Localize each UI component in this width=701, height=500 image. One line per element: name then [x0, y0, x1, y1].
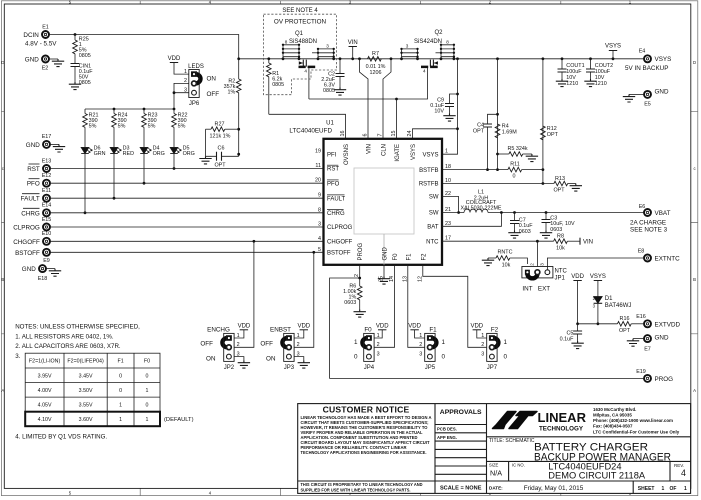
- svg-text:0805: 0805: [323, 88, 335, 94]
- svg-text:2: 2: [530, 263, 535, 266]
- svg-text:VSYS: VSYS: [411, 144, 417, 160]
- svg-text:LTC4040EUFD: LTC4040EUFD: [289, 128, 332, 135]
- svg-text:1: 1: [119, 417, 122, 423]
- wire LED anode bus: [85, 108, 174, 110]
- jumper JP2 ENCHG: [200, 323, 250, 371]
- svg-text:19: 19: [315, 149, 321, 155]
- svg-text:1210: 1210: [595, 81, 607, 87]
- svg-text:ORG: ORG: [153, 151, 165, 157]
- svg-text:VSYS: VSYS: [655, 56, 672, 63]
- svg-text:INT: INT: [522, 286, 532, 293]
- turret E10 CHGOFF: [13, 231, 323, 246]
- svg-text:ON: ON: [207, 76, 217, 83]
- svg-text:Fax: (408)434-0507: Fax: (408)434-0507: [593, 424, 633, 429]
- transistor Q2 SiS424DN: [400, 30, 455, 74]
- svg-text:D: D: [693, 60, 696, 65]
- svg-text:18: 18: [445, 164, 451, 170]
- wire VSYS riser: [442, 59, 459, 154]
- svg-text:3: 3: [419, 352, 422, 358]
- svg-text:LTC Confidential-For Customer: LTC Confidential-For Customer Use Only: [593, 429, 680, 434]
- svg-text:FAULT: FAULT: [21, 196, 40, 203]
- svg-text:3: 3: [481, 352, 484, 358]
- svg-text:0: 0: [119, 373, 122, 379]
- svg-text:TITLE: SCHEMATIC: TITLE: SCHEMATIC: [489, 438, 535, 444]
- wire main 5V rail: [239, 58, 644, 60]
- jumper JP6: [184, 64, 219, 107]
- svg-text:3.45V: 3.45V: [79, 373, 93, 379]
- svg-text:NTC: NTC: [426, 239, 439, 245]
- svg-text:E10: E10: [42, 231, 52, 237]
- svg-text:0: 0: [354, 354, 358, 361]
- svg-text:(DEFAULT): (DEFAULT): [164, 417, 194, 423]
- wire EXTNTC: [547, 258, 643, 270]
- svg-text:2: 2: [297, 342, 300, 348]
- svg-text:PROG: PROG: [358, 242, 364, 260]
- turret E9 BSTOFF: [15, 249, 323, 264]
- svg-text:E5: E5: [644, 102, 651, 108]
- turret E8 EXTNTC: [638, 248, 680, 262]
- svg-text:3: 3: [326, 44, 329, 49]
- turret E1 DCIN: [23, 25, 57, 48]
- svg-text:EXTVDD: EXTVDD: [655, 321, 681, 328]
- svg-text:DEMO CIRCUIT 2118A: DEMO CIRCUIT 2118A: [548, 471, 646, 481]
- turret E6 VBAT: [630, 204, 671, 234]
- svg-text:BAT: BAT: [427, 225, 439, 231]
- svg-text:VSYS: VSYS: [590, 274, 606, 280]
- svg-text:OFF: OFF: [260, 340, 273, 347]
- approvals column: [437, 409, 482, 492]
- svg-text:E9: E9: [43, 258, 50, 264]
- svg-text:SEE NOTE 4: SEE NOTE 4: [282, 8, 318, 14]
- svg-text:R11: R11: [510, 162, 520, 168]
- svg-text:3.: 3.: [15, 353, 20, 360]
- resistor R22: [172, 109, 188, 148]
- wire JP6 pin2/pin3 to LED bus: [174, 83, 189, 109]
- svg-text:1: 1: [297, 333, 300, 339]
- svg-text:GRN: GRN: [94, 151, 106, 157]
- svg-text:LINEAR: LINEAR: [538, 410, 587, 425]
- resistor R6: [343, 278, 366, 317]
- wire F2 net: [423, 265, 487, 348]
- svg-text:SHEET: SHEET: [638, 486, 655, 492]
- resistor R8: [554, 234, 580, 252]
- svg-text:TECHNOLOGY: TECHNOLOGY: [539, 426, 583, 432]
- turret E4 VSYS: [625, 49, 671, 72]
- svg-text:VIN: VIN: [367, 144, 373, 154]
- svg-text:E6: E6: [639, 204, 646, 210]
- wire PROG net: [330, 265, 644, 379]
- turret E15 CLPROG: [13, 217, 323, 232]
- svg-text:VBAT: VBAT: [655, 210, 671, 217]
- svg-text:JP6: JP6: [189, 101, 200, 107]
- turret E5 GND: [623, 89, 669, 108]
- svg-text:SIZE: SIZE: [489, 463, 499, 468]
- diode D1 BAT46WJ: [593, 296, 632, 325]
- resistor R13: [442, 176, 582, 194]
- jumper JP7 F2: [470, 323, 507, 371]
- svg-text:24: 24: [407, 131, 413, 137]
- svg-text:BSTOFF: BSTOFF: [15, 250, 40, 257]
- svg-text:1: 1: [146, 417, 149, 423]
- svg-text:ON: ON: [206, 356, 216, 363]
- svg-text:ENCHG: ENCHG: [207, 327, 230, 334]
- svg-text:JP3: JP3: [284, 365, 295, 371]
- svg-text:0: 0: [442, 354, 446, 361]
- svg-text:OF: OF: [670, 486, 677, 492]
- svg-text:3.95V: 3.95V: [38, 373, 52, 379]
- svg-text:DCIN: DCIN: [23, 32, 39, 39]
- svg-text:0805: 0805: [79, 80, 91, 86]
- svg-text:1206: 1206: [370, 70, 382, 76]
- svg-text:4.8V - 5.5V: 4.8V - 5.5V: [25, 41, 57, 48]
- svg-text:R16: R16: [620, 316, 630, 322]
- svg-text:E18: E18: [38, 276, 48, 282]
- svg-text:RNTC: RNTC: [498, 250, 513, 256]
- svg-text:4. LIMITED BY Q1 VDS RATING.: 4. LIMITED BY Q1 VDS RATING.: [15, 434, 107, 441]
- svg-text:E2: E2: [42, 66, 49, 72]
- svg-text:C5: C5: [566, 331, 573, 337]
- svg-text:BAT46WJ: BAT46WJ: [605, 303, 632, 309]
- svg-text:E4: E4: [639, 49, 646, 55]
- title block outline: [298, 404, 691, 494]
- svg-text:1%: 1%: [228, 90, 236, 96]
- svg-text:APPROVALS: APPROVALS: [440, 409, 482, 416]
- svg-text:B: B: [693, 277, 696, 282]
- svg-text:7: 7: [378, 134, 384, 137]
- svg-text:VDD: VDD: [238, 323, 251, 329]
- turret E12 PFO: [27, 173, 324, 188]
- svg-text:R27: R27: [215, 122, 225, 128]
- svg-text:1: 1: [442, 339, 446, 346]
- svg-text:OPT: OPT: [214, 163, 226, 169]
- OV protection dashed box: [264, 8, 337, 95]
- svg-text:4: 4: [681, 468, 686, 478]
- svg-text:Q1: Q1: [295, 31, 304, 37]
- svg-text:1: 1: [184, 69, 187, 75]
- svg-text:10: 10: [445, 178, 451, 184]
- svg-text:FAULT: FAULT: [327, 196, 346, 202]
- resistor R25: [73, 35, 91, 64]
- svg-text:Phone: (408)432-1900 www.lin: Phone: (408)432-1900 www.linear.com: [593, 418, 673, 423]
- svg-text:1: 1: [354, 339, 358, 346]
- svg-text:CHRG: CHRG: [327, 211, 345, 217]
- svg-text:VDD: VDD: [408, 323, 421, 329]
- resistor R27: [206, 122, 239, 157]
- turret E19 PROG: [636, 369, 673, 383]
- svg-text:2: 2: [377, 342, 380, 348]
- svg-text:E13: E13: [42, 158, 52, 164]
- svg-text:F2: F2: [491, 327, 499, 334]
- svg-text:RSTFB: RSTFB: [419, 182, 439, 188]
- capacitor C7: [508, 213, 533, 239]
- svg-text:16: 16: [340, 131, 346, 137]
- svg-text:10k: 10k: [502, 262, 511, 268]
- svg-text:0603: 0603: [550, 227, 562, 233]
- LED D6 GRN: [81, 146, 105, 215]
- LT logo: [493, 407, 680, 434]
- svg-text:VIN: VIN: [348, 40, 358, 46]
- svg-text:2A CHARGE: 2A CHARGE: [630, 220, 666, 227]
- svg-text:CHGOFF: CHGOFF: [327, 240, 353, 246]
- svg-text:OVSNS: OVSNS: [344, 144, 350, 165]
- svg-text:F2=0(LIFEP04): F2=0(LIFEP04): [67, 359, 104, 365]
- customer notice: [301, 405, 432, 493]
- svg-text:0: 0: [504, 354, 508, 361]
- svg-text:OV PROTECTION: OV PROTECTION: [274, 19, 327, 26]
- svg-text:OFF: OFF: [207, 91, 220, 98]
- LED D4 ORG: [140, 146, 165, 185]
- svg-text:APP ENG.: APP ENG.: [437, 435, 457, 440]
- capacitor C6: [206, 146, 239, 169]
- jumper JP3 ENBST: [260, 323, 310, 371]
- jumper JP5 F1: [408, 323, 445, 371]
- svg-text:2. ALL CAPACITORS ARE 0603, X: 2. ALL CAPACITORS ARE 0603, X7R.: [15, 343, 121, 350]
- svg-text:CHGOFF: CHGOFF: [13, 239, 40, 246]
- wire ENBST riser: [294, 251, 315, 347]
- svg-text:121k 1%: 121k 1%: [210, 134, 231, 140]
- svg-text:ON: ON: [266, 356, 276, 363]
- svg-text:SiS488DN: SiS488DN: [289, 39, 317, 45]
- resistor R23: [142, 109, 158, 148]
- svg-text:15: 15: [391, 131, 397, 137]
- svg-text:VIN: VIN: [583, 240, 593, 246]
- resistor R5: [498, 146, 539, 162]
- svg-text:1630 McCarthy Blvd.: 1630 McCarthy Blvd.: [593, 407, 636, 412]
- svg-text:E15: E15: [42, 217, 52, 223]
- svg-text:JP5: JP5: [425, 365, 436, 371]
- svg-text:4.10V: 4.10V: [38, 417, 52, 423]
- node VIN termination: [580, 238, 593, 246]
- svg-text:2: 2: [481, 342, 484, 348]
- turret E2 GND: [25, 56, 64, 72]
- ground GND pin25: [378, 265, 390, 284]
- svg-text:OPT: OPT: [553, 188, 565, 194]
- svg-text:1: 1: [419, 333, 422, 339]
- svg-text:Q2: Q2: [434, 30, 443, 36]
- capacitor C5: [560, 324, 584, 349]
- svg-text:5%: 5%: [178, 124, 186, 130]
- turret E13 RST: [27, 158, 323, 173]
- svg-text:0603: 0603: [344, 300, 356, 306]
- svg-text:3: 3: [377, 352, 380, 358]
- svg-text:5%: 5%: [148, 124, 156, 130]
- svg-text:IC NO.: IC NO.: [512, 463, 525, 468]
- transistor Q1 SiS488DN: [282, 31, 335, 74]
- svg-text:PROG: PROG: [655, 376, 674, 383]
- svg-text:F2=1(LI-ION): F2=1(LI-ION): [29, 359, 61, 365]
- svg-text:10k: 10k: [556, 245, 565, 251]
- node VDD JP6: [168, 56, 189, 74]
- svg-text:VDD: VDD: [376, 323, 389, 329]
- svg-text:4.00V: 4.00V: [38, 388, 52, 394]
- wire SW pin22 jog: [442, 197, 459, 213]
- svg-text:A: A: [693, 388, 696, 393]
- ground at R27/C6: [199, 156, 211, 164]
- svg-text:CLN: CLN: [382, 144, 388, 156]
- svg-text:Friday, May 01, 2015: Friday, May 01, 2015: [524, 485, 584, 492]
- resistor R16: [617, 316, 643, 334]
- svg-text:E14: E14: [42, 203, 52, 209]
- wire NTC pin17: [442, 240, 554, 267]
- svg-text:JP4: JP4: [364, 365, 375, 371]
- turret E16 EXTVDD: [636, 314, 680, 328]
- svg-text:PFO: PFO: [327, 181, 340, 187]
- wire BAT pin23 jog: [442, 213, 501, 227]
- svg-text:GND: GND: [25, 56, 39, 63]
- svg-text:1: 1: [445, 149, 448, 155]
- svg-text:E16: E16: [636, 314, 646, 320]
- svg-text:OPT: OPT: [619, 328, 631, 334]
- svg-text:5%: 5%: [89, 124, 97, 130]
- svg-text:C6: C6: [218, 146, 225, 152]
- svg-text:R8: R8: [557, 234, 564, 240]
- svg-text:VDD: VDD: [168, 56, 181, 62]
- svg-text:BSTOFF: BSTOFF: [327, 251, 351, 257]
- LED D3 RED: [110, 146, 134, 200]
- svg-text:GND: GND: [655, 335, 669, 342]
- wire R7 kelvin sense to VIN/CLN pins: [360, 59, 392, 139]
- svg-text:1: 1: [119, 403, 122, 409]
- svg-text:ENBST: ENBST: [270, 327, 291, 334]
- svg-text:OPT: OPT: [473, 128, 485, 134]
- note3 table: [25, 353, 193, 426]
- svg-text:PFI: PFI: [327, 152, 337, 158]
- resistor R12: [541, 126, 559, 140]
- svg-text:GND: GND: [26, 142, 40, 149]
- svg-text:SUPPLIED FOR USE WITH LINEAR T: SUPPLIED FOR USE WITH LINEAR TECHNOLOGY …: [301, 487, 411, 492]
- svg-text:5%: 5%: [118, 124, 126, 130]
- svg-text:VDD: VDD: [470, 323, 483, 329]
- jumper JP4 F0: [354, 323, 389, 371]
- resistor R4: [495, 123, 517, 138]
- capacitor COUT2: [584, 59, 613, 87]
- node VIN stub: [348, 40, 358, 59]
- jumper JP1 NTC: [522, 263, 568, 293]
- svg-text:SiS424DN: SiS424DN: [414, 39, 442, 45]
- svg-text:3.50V: 3.50V: [79, 388, 93, 394]
- svg-text:8: 8: [446, 40, 449, 45]
- svg-text:1. ALL RESISTORS ARE 0402, 1%: 1. ALL RESISTORS ARE 0402, 1%.: [15, 334, 114, 341]
- wire VBAT rail: [488, 211, 643, 214]
- svg-text:DATE:: DATE:: [489, 486, 503, 491]
- svg-text:3: 3: [540, 263, 545, 266]
- svg-text:NOTES: UNLESS OTHERWISE SPECIF: NOTES: UNLESS OTHERWISE SPECIFIED,: [15, 324, 140, 331]
- svg-text:R5 324k: R5 324k: [508, 146, 528, 152]
- svg-text:JP1: JP1: [555, 276, 566, 282]
- svg-text:GND: GND: [655, 89, 669, 96]
- svg-text:F0: F0: [393, 253, 399, 261]
- svg-text:NTC: NTC: [555, 269, 568, 275]
- svg-text:0: 0: [146, 403, 149, 409]
- svg-text:E11: E11: [42, 188, 51, 194]
- svg-text:0603: 0603: [519, 229, 531, 235]
- svg-text:GND: GND: [383, 247, 389, 261]
- svg-text:SCALE = NONE: SCALE = NONE: [440, 486, 482, 492]
- svg-text:EXT: EXT: [538, 286, 550, 293]
- node VSYS stub: [605, 44, 621, 59]
- capacitor CIN1: [69, 64, 93, 90]
- svg-text:4.05V: 4.05V: [38, 403, 52, 409]
- svg-text:VDD: VDD: [297, 323, 310, 329]
- svg-text:3: 3: [406, 44, 409, 49]
- svg-text:E12: E12: [42, 173, 52, 179]
- resistor RNTC: [482, 250, 528, 269]
- svg-text:1.69M: 1.69M: [502, 129, 517, 135]
- turret E11 FAULT: [21, 188, 324, 203]
- svg-text:6: 6: [363, 134, 369, 137]
- svg-text:D1: D1: [605, 296, 613, 302]
- svg-text:0805: 0805: [272, 82, 284, 88]
- svg-text:8: 8: [285, 40, 288, 45]
- svg-text:3.60V: 3.60V: [79, 417, 93, 423]
- svg-text:4: 4: [423, 69, 426, 74]
- svg-text:N/A: N/A: [490, 469, 502, 478]
- turret E7 GND: [627, 335, 669, 353]
- wire F1 net: [408, 265, 425, 348]
- inductor L1: [442, 190, 502, 213]
- svg-text:THIS CIRCUIT IS PROPRIETARY TO: THIS CIRCUIT IS PROPRIETARY TO LINEAR TE…: [301, 482, 423, 487]
- svg-text:RST: RST: [327, 167, 339, 173]
- resistor R1: [267, 59, 285, 115]
- svg-text:0.1uF: 0.1uF: [560, 337, 574, 343]
- svg-text:VDD: VDD: [571, 274, 584, 280]
- capacitor C3: [540, 213, 575, 239]
- svg-text:0805: 0805: [79, 53, 91, 59]
- svg-text:XAL5030-222ME: XAL5030-222ME: [460, 205, 501, 211]
- svg-text:CHRG: CHRG: [21, 210, 40, 217]
- svg-text:4: 4: [304, 69, 307, 74]
- NOTES: [15, 324, 140, 441]
- svg-text:BSTFB: BSTFB: [419, 168, 438, 174]
- TITLEBLOCK: [298, 404, 691, 494]
- resistor R11: [442, 162, 543, 180]
- svg-text:2: 2: [237, 342, 240, 348]
- svg-text:0: 0: [119, 388, 122, 394]
- turret E17 GND: [26, 134, 65, 152]
- svg-text:F1: F1: [429, 327, 437, 334]
- wire ENCHG riser: [234, 240, 255, 347]
- turret E14 CHRG: [21, 203, 323, 218]
- svg-text:ORG: ORG: [183, 151, 195, 157]
- turret E18 GND: [22, 265, 61, 282]
- svg-text:F0: F0: [364, 327, 372, 334]
- svg-text:VSYS: VSYS: [605, 44, 621, 50]
- svg-text:JP7: JP7: [487, 365, 498, 371]
- svg-text:F2: F2: [421, 253, 427, 261]
- svg-text:RST: RST: [27, 166, 40, 173]
- svg-text:IGATE: IGATE: [395, 144, 401, 162]
- wire EXTVDD: [578, 323, 618, 325]
- svg-text:CLPROG: CLPROG: [327, 225, 353, 231]
- svg-text:E1: E1: [42, 25, 49, 31]
- svg-text:VSYS: VSYS: [422, 152, 438, 158]
- svg-text:E19: E19: [636, 369, 646, 375]
- svg-text:2: 2: [419, 342, 422, 348]
- svg-text:OFF: OFF: [200, 340, 213, 347]
- svg-text:10V: 10V: [434, 109, 444, 115]
- svg-text:1: 1: [504, 339, 508, 346]
- svg-text:E7: E7: [644, 347, 651, 353]
- svg-text:12: 12: [417, 276, 423, 282]
- svg-text:RED: RED: [123, 151, 134, 157]
- svg-text:R13: R13: [555, 176, 565, 182]
- node VSYS stub: [590, 274, 606, 297]
- wire VSYS pin24 jog: [413, 129, 458, 139]
- svg-text:1: 1: [481, 333, 484, 339]
- wire R4 riser: [496, 59, 499, 171]
- capacitor C9: [430, 94, 457, 121]
- resistor R2: [224, 59, 241, 157]
